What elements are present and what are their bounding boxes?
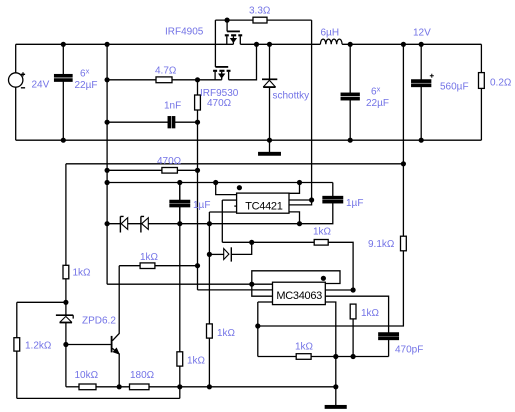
svg-text:1kΩ: 1kΩ: [140, 252, 159, 263]
transistor Q1 IRF4905: [225, 20, 242, 44]
svg-text:1µF: 1µF: [193, 200, 210, 211]
capacitor C3 6x22uF: [341, 44, 359, 140]
svg-text:3.3Ω: 3.3Ω: [249, 6, 271, 17]
wire row y223 with diodes: [107, 223, 299, 225]
svg-text:24V: 24V: [32, 80, 50, 91]
capacitor C2 1nF: [107, 117, 197, 128]
resistor R1 4.7ohm: [107, 77, 197, 83]
svg-text:TC4421: TC4421: [245, 200, 283, 212]
resistor R16 1k vertical x180: [177, 183, 183, 399]
svg-text:9.1kΩ: 9.1kΩ: [368, 239, 395, 250]
wire top rail 24V left: [16, 43, 234, 45]
wire Q2 drain to rail: [229, 44, 257, 80]
resistor R8 1k vertical: [350, 304, 356, 319]
svg-text:0.2Ω: 0.2Ω: [490, 78, 512, 89]
capacitor C5 1uF: [170, 183, 190, 224]
capacitor C4 560uF: [412, 44, 434, 140]
resistor R6 1k: [222, 240, 353, 291]
op-amp U1 TC4421 pin stubs right: [289, 183, 299, 194]
ground GND1: [259, 140, 281, 155]
svg-text:ZPD6.2: ZPD6.2: [82, 316, 116, 327]
svg-text:schottky: schottky: [273, 91, 310, 102]
inductor L1 6uH: [320, 39, 342, 44]
wire TC4421 in from pin row: [221, 200, 223, 242]
svg-text:6µH: 6µH: [321, 28, 340, 39]
resistor R11 1k: [63, 265, 69, 279]
wire MC34063 pin5 from x107: [107, 283, 272, 285]
svg-text:560µF: 560µF: [440, 82, 469, 93]
svg-text:180Ω: 180Ω: [130, 370, 155, 381]
wire node column x107: [106, 44, 108, 284]
resistor R9 9.1k: [401, 44, 407, 251]
voltage source V1 24V: [9, 44, 26, 140]
resistor R12 1.2k: [14, 302, 20, 398]
diode D4: [209, 242, 251, 261]
svg-text:1kΩ: 1kΩ: [217, 328, 236, 339]
svg-text:22µF: 22µF: [366, 98, 389, 109]
svg-text:470Ω: 470Ω: [207, 98, 232, 109]
wire ground rail y140: [16, 139, 482, 141]
resistor R3 3.3ohm: [253, 17, 267, 23]
svg-text:1µF: 1µF: [346, 198, 363, 209]
wire MC34063 right pin to gnd column: [325, 302, 336, 387]
wire MC34063 left pin4: [258, 301, 273, 303]
transistor Q3: [112, 266, 120, 387]
transistor Q2 IRF9530: [213, 20, 230, 80]
resistor R13 10k: [66, 384, 130, 390]
svg-text:470Ω: 470Ω: [157, 156, 182, 167]
wire timing row y326: [257, 302, 259, 357]
svg-text:MC34063: MC34063: [276, 290, 322, 302]
wire loop MC34063 pins: [252, 271, 340, 284]
wire bottom rail: [17, 397, 180, 399]
wire TC4421 output to gate resistor: [311, 20, 313, 200]
svg-text:1kΩ: 1kΩ: [361, 308, 380, 319]
resistor R10 1k bottom: [296, 354, 388, 360]
svg-text:1kΩ: 1kΩ: [313, 227, 332, 238]
ground GND2: [325, 387, 346, 408]
svg-text:1nF: 1nF: [164, 101, 181, 112]
svg-text:IRF4905: IRF4905: [165, 27, 204, 38]
wire left column x66: [65, 164, 67, 265]
svg-text:10kΩ: 10kΩ: [75, 370, 99, 381]
resistor R14 180ohm: [130, 384, 336, 390]
diode D5 ZPD6.2 zener: [56, 315, 73, 344]
capacitor C1 6x22uF: [55, 44, 72, 140]
IC U2 MC34063 box: [273, 282, 326, 304]
wire MC34063 pin from R2 column: [198, 289, 273, 291]
diode D2: [120, 216, 127, 232]
wire x66 to bottom row: [65, 345, 67, 387]
resistor R4 0.2ohm: [479, 44, 485, 140]
diode D1 schottky: [262, 44, 277, 140]
capacitor C8 470pF: [379, 333, 399, 357]
svg-text:4.7Ω: 4.7Ω: [155, 66, 177, 77]
wire top rail right of IRF4905: [240, 43, 481, 45]
svg-text:470pF: 470pF: [395, 345, 423, 356]
svg-text:12V: 12V: [413, 28, 431, 39]
wire row y356: [258, 356, 296, 358]
wire MC34063 right pin to C8: [325, 296, 388, 333]
svg-text:1kΩ: 1kΩ: [73, 268, 92, 279]
wire y302 left: [17, 301, 66, 303]
resistor R5 470ohm: [107, 168, 197, 174]
op-amp U1 TC4421 pin stubs left: [216, 183, 237, 195]
wire rail y164: [66, 163, 404, 165]
diode D3: [141, 216, 148, 232]
svg-text:22µF: 22µF: [75, 80, 98, 91]
wire base row: [66, 344, 111, 346]
wire Q2 source row: [198, 79, 222, 81]
resistor R15 1k vertical x209: [207, 324, 213, 338]
wire gate drive y20: [215, 19, 311, 21]
wire MC34063 right pin to R8: [325, 289, 353, 291]
svg-text:1kΩ: 1kΩ: [187, 356, 206, 367]
wire MC34063 left pin3: [252, 284, 273, 296]
op-amp U1 TC4421 box: [237, 193, 289, 213]
svg-text:1.2kΩ: 1.2kΩ: [25, 341, 52, 352]
capacitor C6 1uF: [300, 183, 343, 224]
resistor R7 1k horizontal: [119, 263, 197, 269]
wire TC4421 pin2 stub x209 top: [209, 211, 236, 213]
svg-text:1kΩ: 1kΩ: [295, 342, 314, 353]
resistor R2 470ohm vertical: [195, 80, 201, 290]
wire x209 column: [208, 212, 210, 324]
wire y182 node row: [107, 182, 333, 184]
